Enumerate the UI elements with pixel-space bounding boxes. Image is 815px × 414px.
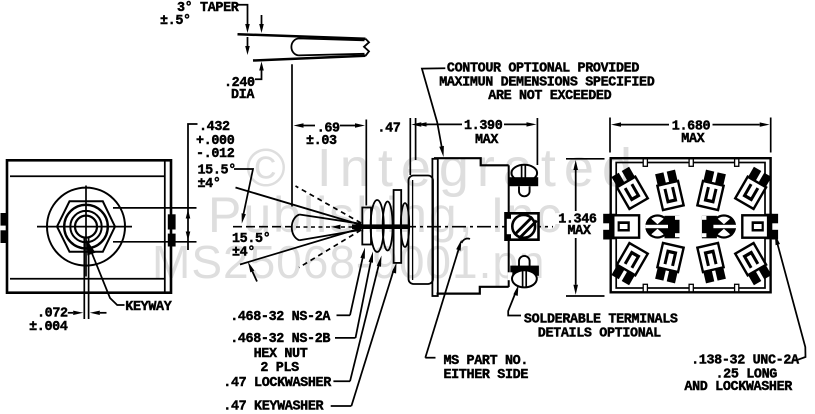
dim .432 bracket and line xyxy=(188,124,198,250)
keyway slot left line xyxy=(83,237,85,319)
keyway slot right line xyxy=(88,237,90,319)
terminal top row 2 xyxy=(655,170,684,211)
rear right outside lug xyxy=(772,214,778,224)
dim 1.680 left extension line xyxy=(609,118,611,153)
upper 15.5 leader xyxy=(234,169,253,214)
dim 1.390 right extension line xyxy=(536,118,538,165)
terminal middle right xyxy=(742,214,772,240)
dim .432 up arrow xyxy=(186,210,191,219)
svg-text:ARE NOT EXCEEDED: ARE NOT EXCEEDED xyxy=(488,89,611,104)
svg-text:MAX: MAX xyxy=(568,224,592,239)
svg-text:±.03: ±.03 xyxy=(306,134,337,149)
keyway leader xyxy=(89,246,125,305)
taper arrow down onto top edge xyxy=(245,24,250,33)
star terminal right xyxy=(702,214,736,239)
hex nut ellipse A xyxy=(371,200,384,252)
contour leader arrowhead xyxy=(439,146,444,157)
front view inner right vertical xyxy=(164,160,166,292)
svg-text:2 PLS: 2 PLS xyxy=(260,361,299,376)
body front plate xyxy=(432,159,437,296)
MS leader curl xyxy=(462,238,471,243)
centerline heavy band through stack xyxy=(352,224,408,229)
front view left lug upper xyxy=(1,213,7,226)
boss inner left line xyxy=(412,180,414,280)
svg-text:CONTOUR OPTIONAL PROVIDED: CONTOUR OPTIONAL PROVIDED xyxy=(447,62,639,77)
svg-text:HEX NUT: HEX NUT xyxy=(254,347,308,362)
svg-text:.138-32 UNC-2A: .138-32 UNC-2A xyxy=(691,354,800,369)
fan solid upper line xyxy=(236,188,364,226)
terminal bottom row 4 xyxy=(735,243,772,285)
svg-text:.072: .072 xyxy=(37,306,68,321)
MS PART NO leader xyxy=(425,248,459,358)
terminal middle left xyxy=(609,214,639,240)
svg-text:MAXIMUN DEMENSIONS SPECIFIED: MAXIMUN DEMENSIONS SPECIFIED xyxy=(439,75,655,90)
dim .69 arrows and line xyxy=(294,123,304,127)
body outline bottom xyxy=(437,287,509,294)
svg-text:.47 KEYWASHER: .47 KEYWASHER xyxy=(223,399,324,414)
svg-text:SOLDERABLE TERMINALS: SOLDERABLE TERMINALS xyxy=(524,313,678,328)
capsule internal arrow xyxy=(331,225,341,230)
leader NS-2A xyxy=(350,254,364,315)
centerline left of capsule xyxy=(233,226,291,228)
terminal block face xyxy=(508,165,510,287)
svg-text:.47: .47 xyxy=(377,121,400,136)
rear view inner rect xyxy=(616,163,765,289)
front view right lug upper xyxy=(168,214,176,229)
lockwasher ellipse B xyxy=(383,202,393,251)
leader NS-2B xyxy=(356,258,372,338)
svg-text:±4°: ±4° xyxy=(232,245,255,260)
front view thread circle xyxy=(70,211,101,242)
top screw slot xyxy=(521,165,523,181)
dim 1.346 up arrow xyxy=(573,160,578,170)
front view bushing circle xyxy=(64,205,108,249)
upper 15.5 leader arrowhead xyxy=(242,213,246,223)
terminal top row 4 xyxy=(735,167,772,209)
bushing flat projection line lower xyxy=(113,241,197,243)
terminal bottom row 2 xyxy=(655,243,684,284)
middle screw diagonal slot xyxy=(514,217,532,235)
bottom screw shank xyxy=(519,256,530,266)
svg-text:AND LOCKWASHER: AND LOCKWASHER xyxy=(684,380,793,395)
fan solid lower line xyxy=(240,228,363,265)
terminal top row 1 xyxy=(611,167,648,209)
bottom screw white notch xyxy=(508,272,513,280)
centerline through side view xyxy=(352,226,553,228)
svg-text:.47 LOCKWASHER: .47 LOCKWASHER xyxy=(223,376,332,391)
taper leader elbow xyxy=(238,5,248,24)
top screw clamp band xyxy=(509,177,539,186)
svg-text:±4°: ±4° xyxy=(198,177,221,192)
taper arrow down inner xyxy=(247,37,249,46)
capsule center dashes xyxy=(296,226,330,228)
rear bottom boss tabs xyxy=(643,284,647,292)
SOLDERABLE leader xyxy=(508,291,521,316)
svg-text:.432: .432 xyxy=(199,120,230,135)
bottom screw slot xyxy=(522,271,524,287)
front view hex nut xyxy=(57,201,115,252)
leader lockwasher xyxy=(350,262,380,381)
.138 label leader xyxy=(778,244,806,360)
terminal top row 3 xyxy=(697,170,726,211)
hex nut ellipse C xyxy=(401,203,409,247)
dim 1.346 down arrow xyxy=(575,238,577,285)
lever inner capsule xyxy=(291,38,364,55)
dim 1.680 arrows and line xyxy=(611,122,621,126)
svg-text:EITHER SIDE: EITHER SIDE xyxy=(444,368,529,383)
svg-text:MS PART NO.: MS PART NO. xyxy=(444,354,529,369)
fan dashed upper line xyxy=(296,186,362,223)
dia arrow up onto bottom edge xyxy=(259,62,264,71)
svg-text:.468-32 NS-2B: .468-32 NS-2B xyxy=(230,332,330,347)
svg-text:.468-32 NS-2A: .468-32 NS-2A xyxy=(230,310,331,325)
dim 1.390 arrows and line xyxy=(417,122,427,126)
lower 15.5 pointer arrow xyxy=(248,262,255,273)
svg-text:1.390: 1.390 xyxy=(464,119,503,134)
body outline top xyxy=(434,158,509,165)
dim .432 down arrow xyxy=(186,232,191,241)
rear top boss tabs xyxy=(643,159,647,167)
front view bore circle xyxy=(75,216,97,238)
terminal bottom row 1 xyxy=(611,243,648,285)
dim 1.390 left extension line xyxy=(415,118,417,160)
terminal bottom row 3 xyxy=(697,243,726,284)
dim .072 arrows xyxy=(73,311,83,315)
svg-text:MAX: MAX xyxy=(681,132,705,147)
front view outer body rect xyxy=(7,160,171,292)
middle screw plate xyxy=(506,213,539,239)
dim .47 outside arrow xyxy=(411,122,421,126)
contour leader xyxy=(422,68,445,148)
lever top edge xyxy=(238,34,366,39)
dim .47 right extension line xyxy=(409,118,411,175)
svg-text:±.004: ±.004 xyxy=(29,320,68,335)
middle screw circle xyxy=(512,215,535,238)
dim 1.346 top extension line xyxy=(566,158,605,160)
front view crosshair vertical xyxy=(85,186,87,277)
svg-text:MAX: MAX xyxy=(475,133,499,148)
top screw head ellipse xyxy=(512,165,538,181)
svg-text:DETAILS OPTIONAL: DETAILS OPTIONAL xyxy=(538,327,661,342)
keyway arrowhead xyxy=(87,240,96,256)
lever bottom edge xyxy=(253,56,366,61)
keywasher tall rect xyxy=(394,190,402,263)
front view right lug lower xyxy=(168,234,176,247)
lever break line xyxy=(364,39,369,56)
lever capsule outline xyxy=(292,215,361,241)
front view inner top line xyxy=(10,175,165,177)
bottom screw head ellipse xyxy=(512,270,537,287)
svg-text:DIA: DIA xyxy=(231,88,255,103)
fan dashed lower line xyxy=(299,230,361,268)
dia arrow down onto top edge xyxy=(261,15,263,24)
svg-text:±.5°: ±.5° xyxy=(160,14,191,29)
svg-text:MS25068-9001.pn: MS25068-9001.pn xyxy=(152,236,546,288)
svg-text:KEYWAY: KEYWAY xyxy=(125,300,172,315)
top screw shank xyxy=(519,186,530,196)
bushing boss rounded rect xyxy=(409,176,434,285)
bottom screw clamp band xyxy=(510,266,539,276)
front view inner bottom line xyxy=(10,278,165,280)
front view outer circle xyxy=(47,188,125,266)
svg-text:-.012: -.012 xyxy=(196,147,235,162)
bushing flat projection line upper xyxy=(113,207,197,209)
dim 1.680 right extension line xyxy=(770,118,772,153)
leader keywasher xyxy=(351,269,394,406)
front view left lug lower xyxy=(1,230,7,243)
bushing cylinder xyxy=(362,208,371,245)
middle screw corner marks xyxy=(506,234,512,240)
dim .69 left extension line xyxy=(291,64,293,206)
dim 1.346 bottom extension line xyxy=(566,295,605,297)
rear view outer rect xyxy=(611,158,771,292)
dim .69 right extension line xyxy=(365,120,367,206)
rear left outside lug xyxy=(603,214,609,224)
star terminal left xyxy=(645,214,679,239)
front view crosshair horizontal xyxy=(37,226,132,228)
